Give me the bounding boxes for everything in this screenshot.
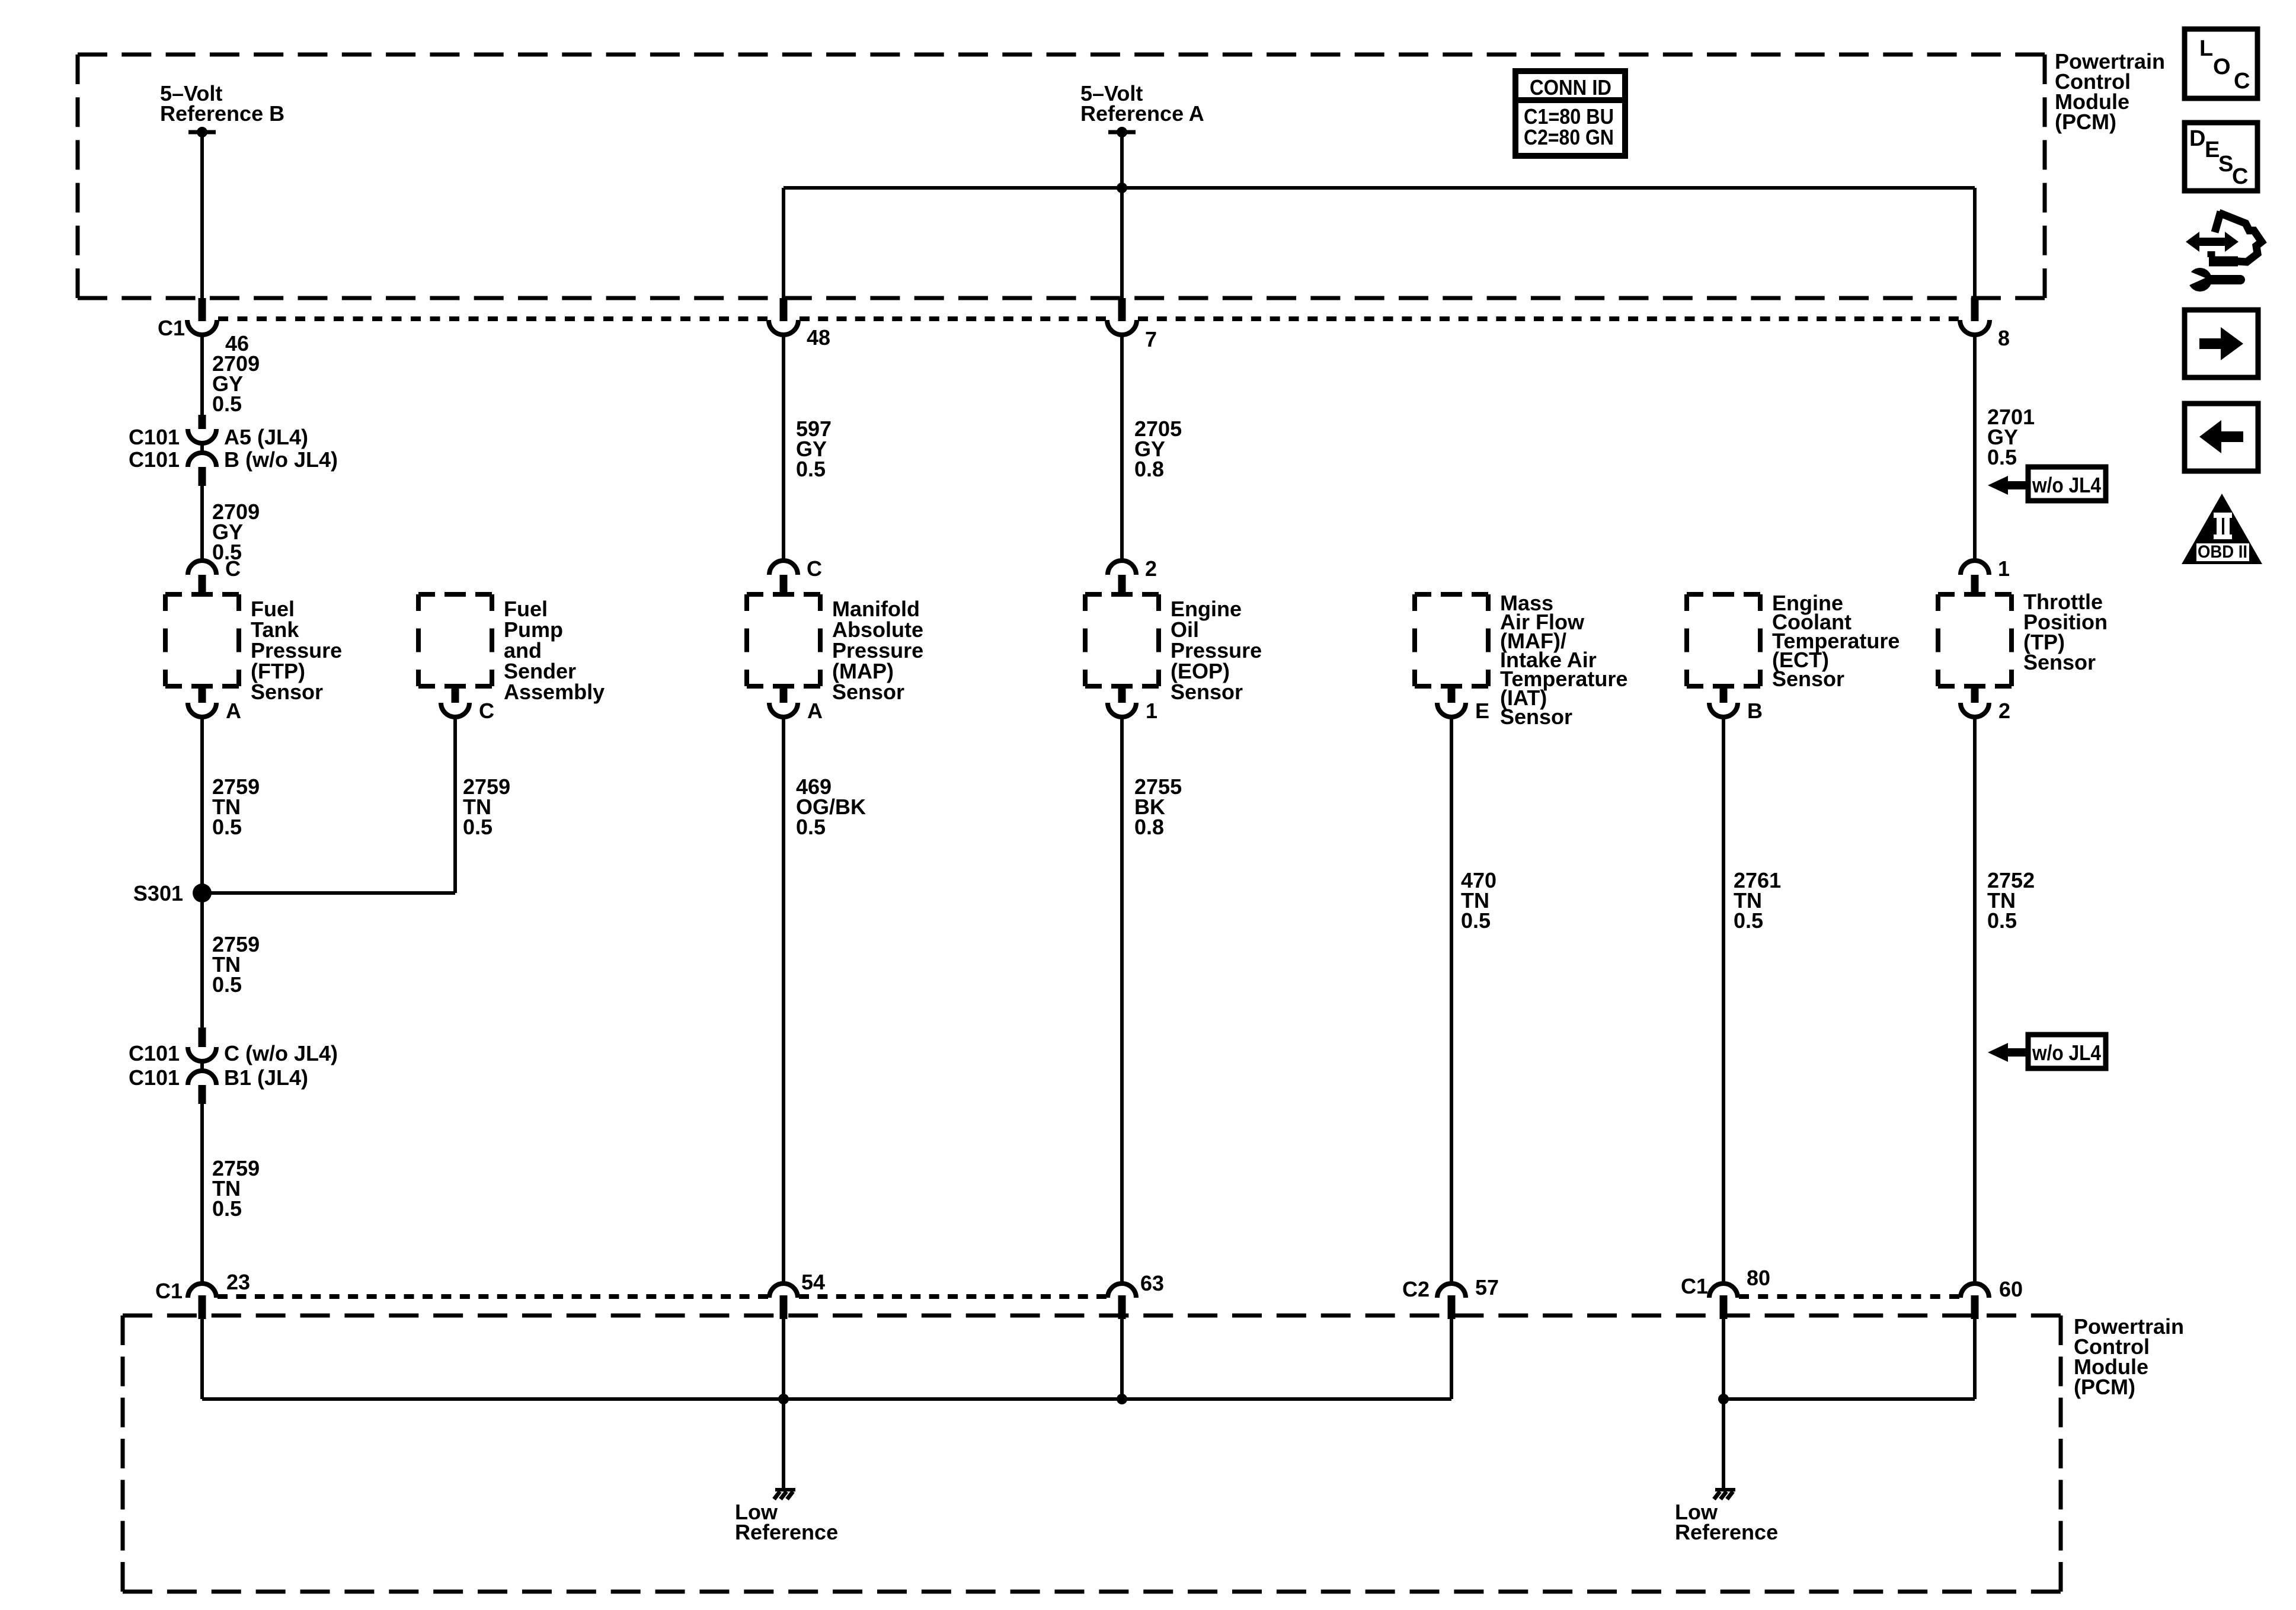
wire 2709 GY (C101 to FTP) (200, 486, 204, 561)
connector C101 C (w/o JL4) (129, 1028, 338, 1072)
wire 597 GY (pin 48 to MAP) (782, 334, 785, 561)
wire label 2761 TN 0.5 (1734, 868, 1781, 933)
wire 2705 GY (pin 7 to EOP) (1120, 334, 1124, 561)
svg-text:C: C (225, 556, 241, 581)
svg-text:C101: C101 (129, 1041, 180, 1065)
wire label 2759 TN 0.5 (pump) (463, 774, 510, 839)
svg-text:0.5: 0.5 (212, 815, 242, 839)
wire label 2709 GY 0.5 (lower) (212, 500, 260, 564)
sensor bottom connector pin A (188, 686, 241, 723)
wire pin 63 into PCM (1120, 1317, 1124, 1399)
svg-text:23: 23 (226, 1270, 250, 1294)
svg-text:Reference B: Reference B (160, 101, 284, 126)
connector C101 A5 (JL4) (129, 415, 308, 454)
wire label 2759 TN 0.5 (FTP) (212, 774, 260, 839)
sensor top connector pin C (769, 556, 822, 594)
svg-text:L: L (2199, 36, 2213, 61)
connector C1 pin 8 (1960, 298, 2010, 350)
power terminal 5-Volt Reference A (1080, 81, 1204, 137)
svg-text:Sensor: Sensor (251, 680, 323, 704)
PCM label (bottom) (2074, 1314, 2184, 1399)
svg-text:CONN ID: CONN ID (1530, 75, 1611, 100)
connector pin 54 (bottom) (769, 1270, 825, 1319)
svg-text:54: 54 (801, 1270, 825, 1294)
svg-text:C (w/o JL4): C (w/o JL4) (224, 1041, 338, 1065)
junction node pin 54 bus (778, 1394, 789, 1404)
wire 2759 TN (fuel pump C to S301) (453, 717, 457, 893)
MAP sensor label (832, 597, 923, 704)
svg-text:C: C (807, 556, 822, 581)
svg-text:C1: C1 (1681, 1274, 1708, 1298)
sensor top connector pin 2 (1108, 556, 1157, 594)
wire 5V ref B vertical (200, 132, 204, 298)
wire label 597 GY 0.5 (796, 417, 832, 481)
wire pin 57 into PCM (1450, 1317, 1453, 1399)
wire label 2752 TN 0.5 (1987, 868, 2035, 933)
TP sensor label (2023, 590, 2108, 674)
svg-text:8: 8 (1998, 326, 2010, 350)
svg-text:(PCM): (PCM) (2055, 110, 2116, 134)
svg-text:Reference: Reference (1675, 1520, 1778, 1544)
connector pin 57 (bottom) (1402, 1275, 1499, 1319)
ECT sensor box (1687, 594, 1760, 686)
svg-text:Assembly: Assembly (504, 680, 605, 704)
svg-text:0.5: 0.5 (212, 392, 242, 416)
svg-text:2: 2 (1998, 699, 2010, 723)
EOP sensor box (1085, 594, 1159, 686)
junction node on reference A bus (1117, 183, 1127, 193)
wire 2755 BK (EOP 1 down) (1120, 717, 1124, 1283)
svg-text:80: 80 (1747, 1266, 1770, 1290)
sensor bottom connector pin E (1437, 686, 1489, 723)
svg-text:0.8: 0.8 (1134, 815, 1164, 839)
svg-text:0.8: 0.8 (1134, 457, 1164, 481)
wire pin 60 into PCM (1973, 1317, 1977, 1399)
svg-text:A: A (226, 699, 241, 723)
svg-text:A5 (JL4): A5 (JL4) (224, 425, 308, 449)
svg-text:C: C (479, 699, 494, 723)
sensor bottom connector pin 1 (1108, 686, 1157, 723)
svg-text:B: B (1747, 699, 1763, 723)
sensor bottom connector pin B (1709, 686, 1763, 723)
wire 469 OG/BK (MAP A down) (782, 717, 785, 1283)
PCM connector C1 dotted line (top) (218, 316, 1959, 321)
svg-text:Sensor: Sensor (2023, 650, 2096, 674)
wire 470 TN (MAF E down) (1450, 717, 1453, 1283)
OBD II icon (2182, 494, 2262, 564)
sensor bottom connector pin 2 (1961, 686, 2010, 723)
wire label 2755 BK 0.8 (1134, 774, 1182, 839)
wire bus branch to pin 48 (782, 188, 785, 298)
wire S301 horizontal (202, 891, 455, 895)
connector pin 63 (bottom) (1108, 1271, 1164, 1319)
LOC icon (2185, 29, 2257, 98)
wire 2709 GY (pin 46 to C101) (200, 334, 204, 415)
svg-text:63: 63 (1140, 1271, 1164, 1295)
label Low Reference (right) (1675, 1500, 1778, 1544)
svg-text:0.5: 0.5 (1734, 908, 1763, 933)
svg-text:C: C (2232, 164, 2248, 189)
svg-text:48: 48 (807, 325, 830, 350)
svg-text:Reference A: Reference A (1080, 101, 1204, 126)
PCM label (top) (2055, 49, 2165, 134)
wire pin 23 into PCM (200, 1317, 204, 1399)
label Low Reference (left) (735, 1500, 838, 1544)
svg-text:E: E (2205, 137, 2220, 162)
svg-text:Reference: Reference (735, 1520, 838, 1544)
DESC icon (2185, 123, 2257, 191)
power terminal 5-Volt Reference B (160, 81, 284, 137)
svg-text:C2: C2 (1402, 1277, 1430, 1301)
PCM module box (bottom) (123, 1315, 2061, 1592)
connector C101 B (w/o JL4) (129, 447, 338, 486)
label C1 (top connector) (158, 316, 185, 340)
svg-text:Sensor: Sensor (1500, 705, 1572, 729)
svg-text:C1: C1 (158, 316, 185, 340)
svg-text:0.5: 0.5 (212, 1196, 242, 1221)
svg-text:Sensor: Sensor (1171, 680, 1243, 704)
TP sensor box (1938, 594, 2012, 686)
svg-text:0.5: 0.5 (1987, 445, 2017, 469)
wire 2701 GY (pin 8 to TP) (1973, 334, 1977, 561)
junction node pin 63 bus (1117, 1394, 1127, 1404)
low reference bus (right) (1723, 1397, 1975, 1401)
svg-text:57: 57 (1475, 1275, 1499, 1299)
wire 2759 TN (FTP A to S301) (200, 717, 204, 888)
svg-text:E: E (1475, 699, 1489, 723)
svg-text:O: O (2213, 55, 2231, 79)
svg-text:(PCM): (PCM) (2074, 1375, 2135, 1399)
back arrow icon (2185, 404, 2258, 471)
svg-text:0.5: 0.5 (1987, 908, 2017, 933)
low reference bus (left) (202, 1397, 1451, 1401)
svg-text:B (w/o JL4): B (w/o JL4) (224, 447, 338, 472)
wire 2752 TN (TP 2 down) (1973, 717, 1977, 1283)
wire label 2701 GY 0.5 (1987, 405, 2035, 469)
sensor top connector pin C (188, 556, 241, 594)
junction node pin 80 bus (1718, 1394, 1729, 1404)
fuel pump and sender assembly box (418, 594, 492, 686)
wire 2761 TN (ECT B down) (1722, 717, 1725, 1283)
svg-text:C2=80 GN: C2=80 GN (1524, 125, 1614, 149)
connector C1 pin 7 (1107, 298, 1157, 351)
svg-text:0.5: 0.5 (796, 457, 826, 481)
ECT sensor label (1772, 591, 1900, 691)
svg-text:C101: C101 (129, 1065, 180, 1090)
svg-text:OBD II: OBD II (2198, 542, 2247, 562)
wire pin 80 to ground (1722, 1317, 1725, 1490)
fuel pump and sender assembly label (504, 597, 605, 704)
ground Low Reference (right) (1714, 1490, 1735, 1499)
vehicle service icon (2185, 212, 2262, 292)
PCM module box (top) (78, 55, 2045, 298)
svg-text:S301: S301 (133, 881, 183, 905)
ground Low Reference (left) (774, 1490, 795, 1499)
wire bus branch to pin 8 (1973, 188, 1977, 298)
CONN ID legend box (1515, 71, 1625, 156)
svg-text:C101: C101 (129, 447, 180, 472)
svg-text:A: A (807, 699, 823, 723)
splice S301 (133, 881, 212, 905)
wire 2759 TN (S301 to C101) (200, 898, 204, 1028)
w/o JL4 flag 1 (1988, 467, 2106, 501)
connector C1 pin 48 (769, 298, 830, 350)
wire 5V ref A horizontal bus (784, 186, 1975, 190)
MAF/IAT sensor box (1415, 594, 1488, 686)
svg-text:C101: C101 (129, 425, 180, 449)
connector C101 B1 (JL4) (129, 1065, 308, 1104)
w/o JL4 flag 2 (1988, 1035, 2106, 1068)
sensor bottom connector pin C (441, 686, 494, 723)
EOP sensor label (1171, 597, 1262, 704)
svg-text:w/o JL4: w/o JL4 (2032, 1041, 2101, 1065)
svg-text:0.5: 0.5 (212, 972, 242, 997)
wire label 469 OG/BK 0.5 (796, 774, 866, 839)
wire pin 54 to ground (782, 1317, 785, 1490)
wire label 2705 GY 0.8 (1134, 417, 1182, 481)
MAP sensor box (747, 594, 820, 686)
MAF/IAT sensor label (1500, 591, 1627, 729)
connector pin 23 (bottom) (155, 1270, 250, 1319)
svg-text:D: D (2189, 126, 2205, 151)
svg-text:S: S (2218, 152, 2233, 177)
svg-text:C1: C1 (155, 1279, 183, 1303)
svg-text:C: C (2234, 69, 2250, 94)
svg-text:1: 1 (1998, 556, 2010, 581)
wire label 470 TN 0.5 (1461, 868, 1496, 933)
connector pin 60 (bottom) (1961, 1277, 2023, 1319)
connector pin 80 (bottom) (1681, 1266, 1770, 1319)
forward arrow icon (2185, 310, 2258, 377)
FTP sensor box (165, 594, 239, 686)
wire label 2709 GY 0.5 (upper) (212, 351, 260, 416)
svg-text:2: 2 (1145, 556, 1157, 581)
svg-text:7: 7 (1145, 327, 1157, 351)
sensor bottom connector pin A (769, 686, 823, 723)
svg-text:60: 60 (1999, 1277, 2023, 1301)
svg-text:w/o JL4: w/o JL4 (2032, 473, 2101, 497)
svg-text:0.5: 0.5 (1461, 908, 1491, 933)
svg-text:0.5: 0.5 (463, 815, 493, 839)
svg-text:0.5: 0.5 (796, 815, 826, 839)
wire 5V ref A vertical (1120, 132, 1124, 298)
svg-text:Sensor: Sensor (832, 680, 904, 704)
wire label 2759 TN 0.5 (below S301) (212, 932, 260, 997)
svg-text:Sensor: Sensor (1772, 667, 1844, 691)
wire 2759 TN (C101 to pin 23) (200, 1104, 204, 1283)
svg-text:B1 (JL4): B1 (JL4) (224, 1065, 308, 1090)
svg-text:1: 1 (1146, 699, 1157, 723)
FTP sensor label (251, 597, 342, 704)
connector C1 pin 46 (187, 298, 249, 356)
wire label 2759 TN 0.5 (bottom) (212, 1156, 260, 1221)
sensor top connector pin 1 (1961, 556, 2010, 594)
PCM connector dotted line (bottom) (218, 1294, 1959, 1299)
